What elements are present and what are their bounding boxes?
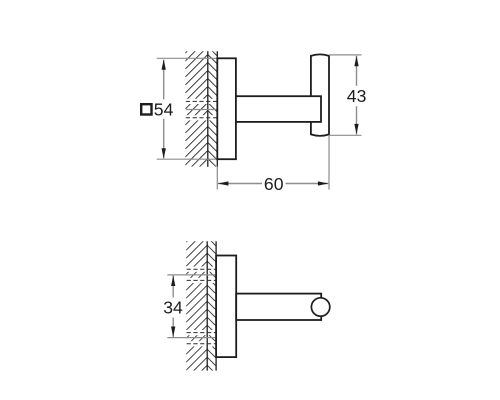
svg-text:43: 43 <box>347 86 367 106</box>
svg-text:54: 54 <box>154 100 174 120</box>
svg-text:60: 60 <box>264 174 284 194</box>
svg-text:34: 34 <box>163 298 183 318</box>
